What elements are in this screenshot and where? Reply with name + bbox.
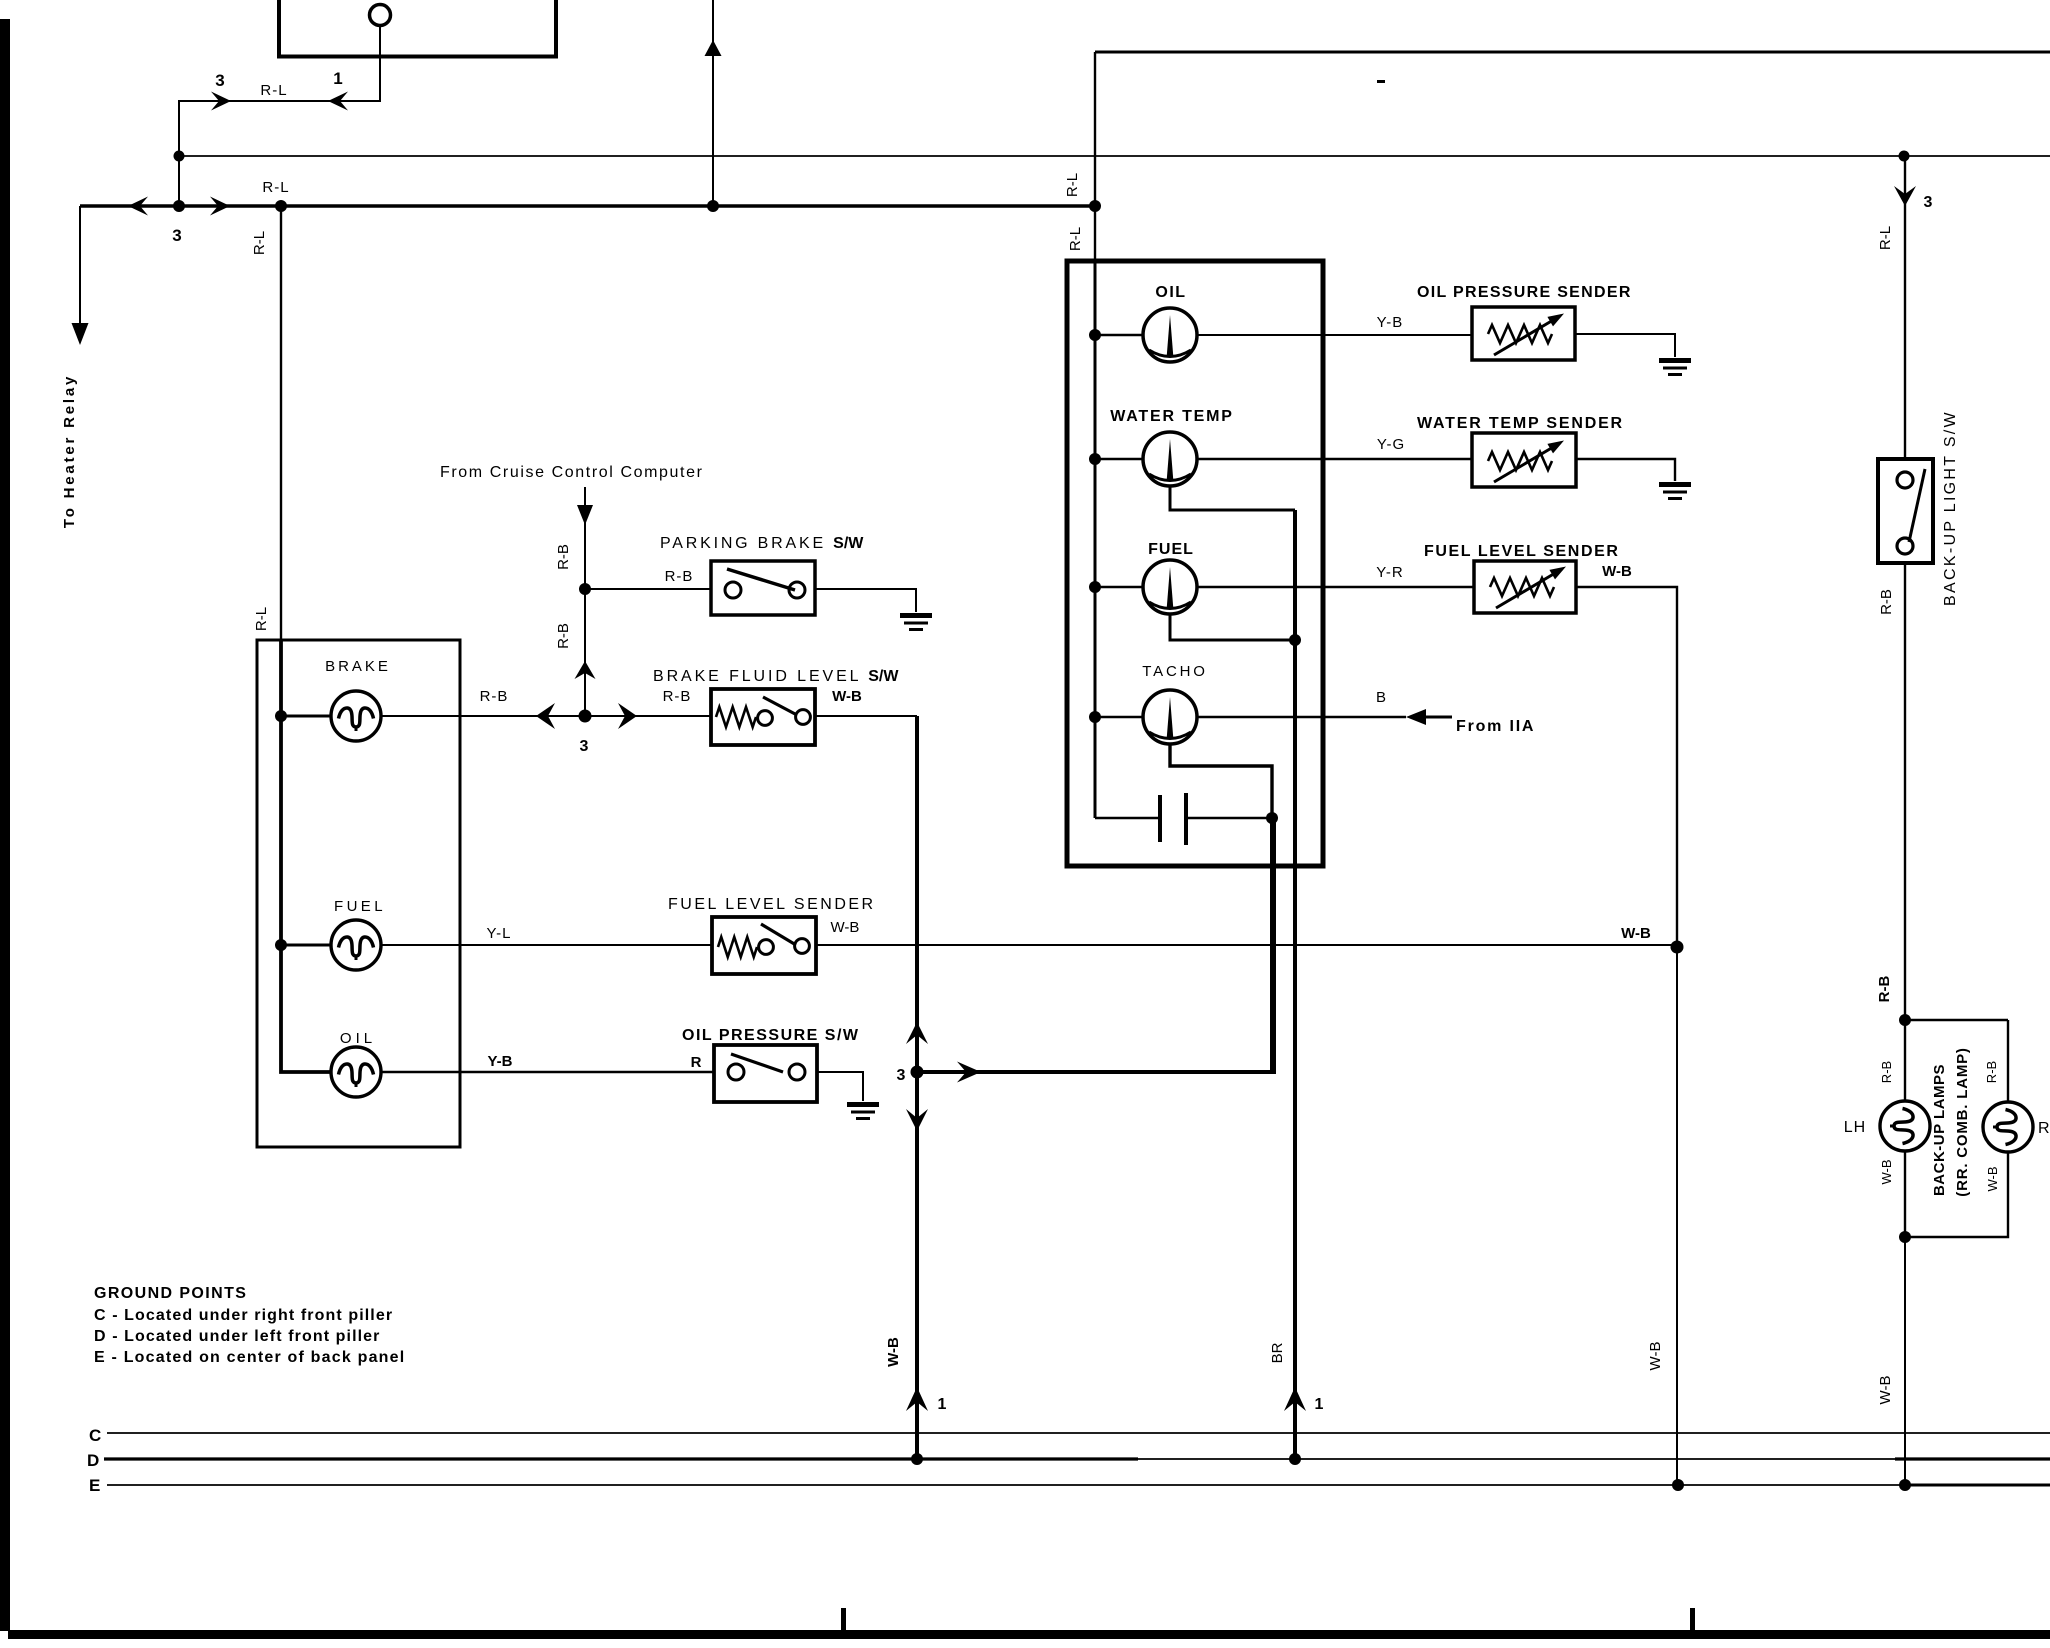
fuel level sender (variable resistor) [1474, 561, 1576, 613]
WATER TEMP gauge [1143, 432, 1197, 486]
capacitor left wire [1095, 817, 1158, 820]
connector arrow right [618, 703, 637, 729]
wire parking brake to ground [815, 589, 916, 612]
svg-text:W-B: W-B [885, 1337, 902, 1367]
svg-text:FUEL: FUEL [1148, 541, 1194, 558]
back-up lamp parallel loop bottom wire [1905, 1153, 2008, 1237]
svg-text:B: B [1376, 689, 1386, 706]
junction dot back-up lamps [1899, 1014, 1911, 1026]
svg-text:WATER TEMP SENDER: WATER TEMP SENDER [1417, 415, 1624, 432]
FUEL gauge [1143, 560, 1197, 614]
svg-text:R-B: R-B [1879, 1061, 1894, 1083]
meter bus R-L [1094, 261, 1097, 818]
svg-text:TACHO: TACHO [1142, 663, 1207, 680]
arrow to heater relay [72, 323, 89, 345]
fuel level sender switch [712, 917, 816, 974]
wire bus to brake lamp [281, 715, 331, 718]
svg-text:3: 3 [1924, 194, 1933, 211]
connector chevron 1 up [1284, 1387, 1306, 1411]
connector arrow 3 (male) [211, 92, 231, 111]
svg-text:FUEL: FUEL [334, 898, 386, 915]
wire Y-G water temp gauge to sender [1197, 458, 1472, 460]
svg-text:OIL PRESSURE S/W: OIL PRESSURE S/W [682, 1027, 860, 1044]
junction dot capacitor / tacho return [1266, 812, 1278, 824]
svg-text:To Heater Relay: To Heater Relay [61, 374, 78, 528]
connector chevron 1 up [906, 1387, 928, 1411]
back-up light switch [1878, 459, 1933, 563]
svg-text:W-B: W-B [1985, 1166, 2000, 1191]
wire R-L main feed (to combination meter) [80, 204, 1095, 208]
wire oil pressure sender to ground [1575, 334, 1675, 357]
wire R-L from ignition terminal [179, 26, 380, 206]
svg-text:C - Located under right front: C - Located under right front piller [94, 1307, 393, 1324]
water temp sender (variable resistor) [1472, 433, 1576, 487]
svg-text:BACK-UP LIGHT S/W: BACK-UP LIGHT S/W [1942, 410, 1959, 606]
svg-text:E - Located on center of back: E - Located on center of back panel [94, 1349, 405, 1366]
junction dot R-L / thin bus [174, 151, 185, 162]
wire R-L down into combination meter [1094, 52, 1096, 261]
wire Y-R fuel gauge to sender [1197, 586, 1474, 588]
svg-text:R-B: R-B [555, 623, 572, 649]
svg-text:D - Located under left front p: D - Located under left front piller [94, 1328, 381, 1345]
page border bottom bar [8, 1630, 2050, 1639]
svg-text:Y-B: Y-B [1377, 314, 1404, 331]
svg-text:1: 1 [333, 69, 342, 88]
ground line D right thick segment [1895, 1457, 2050, 1460]
OIL gauge [1143, 308, 1197, 362]
wire branch up to charging circuit [712, 0, 714, 206]
svg-text:3: 3 [580, 738, 589, 755]
arrow from IIA [1406, 709, 1426, 725]
svg-text:RH: RH [2038, 1120, 2050, 1137]
svg-text:OIL PRESSURE SENDER: OIL PRESSURE SENDER [1417, 284, 1632, 301]
svg-text:LH: LH [1844, 1119, 1866, 1136]
wire W-B from LH lamp [1904, 1151, 1906, 1237]
ignition switch box (cut off at top edge) [277, 0, 558, 57]
junction dot on ground line E [1672, 1479, 1684, 1491]
OIL warning lamp [331, 1047, 381, 1097]
wire R-B from cruise control computer [584, 487, 586, 716]
capacitor (noise suppressor) in meter [1160, 793, 1186, 845]
junction dot [707, 200, 719, 212]
wire W-B to ground point E [1904, 1237, 1906, 1485]
ground (oil pressure S/W) [847, 1102, 879, 1107]
wire oil pressure switch to ground [817, 1072, 863, 1101]
wire B tacho to IIA [1197, 716, 1406, 718]
svg-text:BRAKE FLUID LEVEL S/W: BRAKE FLUID LEVEL S/W [653, 668, 899, 685]
junction dot tacho [1089, 711, 1101, 723]
svg-text:BR: BR [1269, 1342, 1286, 1363]
connector chevron down [906, 1109, 928, 1131]
ground (water temp sender) [1659, 482, 1691, 487]
svg-text:D: D [87, 1451, 99, 1470]
wire Y-B oil gauge to sender [1197, 334, 1472, 336]
ground line E [107, 1484, 1906, 1486]
capacitor right wire [1188, 817, 1272, 820]
parking brake switch [711, 561, 815, 615]
svg-text:R: R [691, 1054, 702, 1071]
svg-text:FUEL LEVEL SENDER: FUEL LEVEL SENDER [668, 896, 876, 913]
ground line D thin segment [1138, 1458, 1895, 1460]
junction dot R-L main feed [173, 200, 185, 212]
junction dot on R-L bus at back-up light branch [1899, 151, 1910, 162]
ground line E right thick segment [1906, 1484, 2050, 1487]
wire R-B to LH lamp [1904, 1020, 1906, 1101]
fuel gauge bottom wire [1170, 614, 1292, 640]
svg-text:1: 1 [938, 1396, 947, 1413]
wire bus to tacho [1095, 716, 1143, 719]
ground (oil pressure sender) [1659, 358, 1691, 363]
connector arrow 1 (female) [328, 92, 348, 111]
svg-text:OIL: OIL [1155, 284, 1186, 301]
svg-text:R-B: R-B [555, 544, 572, 570]
oil pressure switch [714, 1045, 817, 1102]
svg-text:W-B: W-B [831, 919, 860, 936]
feed wire from ignition switch (top right) [1095, 51, 2050, 54]
svg-text:PARKING BRAKE S/W: PARKING BRAKE S/W [660, 535, 864, 552]
junction dot W-B / oil pressure net [911, 1066, 924, 1079]
wire R-L down to back-up light switch [1904, 156, 1906, 459]
wire thick to combination meter (tacho/capacitor return) [917, 818, 1274, 1072]
svg-text:R-L: R-L [262, 179, 289, 196]
bottom border tick 2 [1690, 1608, 1695, 1630]
wire W-B (to ground point D) [915, 716, 919, 1459]
svg-text:R-L: R-L [1067, 227, 1084, 251]
ground line D thick segment [104, 1457, 1138, 1460]
connector arrow right 3 [210, 197, 230, 216]
arrow up [705, 40, 722, 56]
wire W-B fuel sender to ground point E [817, 944, 1677, 946]
TACHO gauge [1143, 690, 1197, 744]
svg-text:C: C [89, 1426, 101, 1445]
wire BR (meter to ground point D) [1293, 510, 1297, 1459]
svg-text:E: E [89, 1476, 100, 1495]
svg-text:W-B: W-B [1879, 1159, 1894, 1184]
svg-text:R-B: R-B [480, 688, 509, 705]
water temp gauge bottom wire [1170, 486, 1295, 510]
svg-text:Y-L: Y-L [487, 925, 512, 942]
svg-text:(RR. COMB. LAMP): (RR. COMB. LAMP) [1954, 1047, 1971, 1196]
svg-text:BACK-UP LAMPS: BACK-UP LAMPS [1931, 1064, 1948, 1196]
connector arrow right [957, 1062, 981, 1083]
junction dot fuel gauge [1089, 581, 1101, 593]
combination meter box [1067, 261, 1323, 866]
svg-text:R-L: R-L [260, 82, 287, 99]
svg-text:R-B: R-B [665, 568, 694, 585]
page border left bar [0, 19, 10, 1631]
svg-text:FUEL LEVEL SENDER: FUEL LEVEL SENDER [1424, 543, 1620, 560]
wire Y-L fuel lamp to sender [381, 944, 713, 946]
junction dot on ground line D [911, 1453, 923, 1465]
connector arrow left (to heater relay) [128, 197, 148, 216]
connector chevron up [906, 1022, 928, 1044]
junction dot water temp gauge [1089, 453, 1101, 465]
junction dot oil gauge [1089, 329, 1101, 341]
connector arrow left [536, 703, 555, 729]
wire R-L bus (to back-up light S/W) [179, 155, 2050, 157]
junction dot W-B net [1671, 941, 1684, 954]
svg-text:3: 3 [897, 1067, 906, 1084]
svg-text:W-B: W-B [832, 688, 862, 705]
arrow down from cruise control [577, 505, 593, 525]
back-up lamp RH [1983, 1102, 2033, 1152]
wire R-B brake lamp to switches [381, 715, 711, 717]
junction dot [1899, 1231, 1911, 1243]
wire W-B brake fluid level switch output [815, 715, 917, 717]
svg-text:R-B: R-B [1984, 1061, 1999, 1083]
terminal circle on ignition box [370, 5, 391, 26]
junction dot on ground line D [1289, 1453, 1301, 1465]
junction dot fuel gauge return / BR net [1289, 634, 1301, 646]
svg-text:R-L: R-L [1064, 173, 1081, 197]
wire to heater relay [79, 206, 81, 340]
wire Y-B oil lamp to switch [381, 1071, 715, 1073]
wire water temp sender to ground [1576, 459, 1675, 481]
svg-text:W-B: W-B [1877, 1376, 1894, 1405]
svg-text:R-B: R-B [663, 688, 692, 705]
connector chevron 3 down [1894, 186, 1916, 206]
back-up lamp LH [1880, 1101, 1930, 1151]
wire R-B back-up light switch to lamps [1904, 563, 1906, 1020]
svg-text:From IIA: From IIA [1456, 718, 1535, 735]
svg-text:OIL: OIL [340, 1030, 376, 1047]
ground (parking brake S/W) [900, 613, 932, 618]
oil pressure sender (variable resistor) [1472, 307, 1575, 360]
FUEL warning lamp [331, 920, 381, 970]
svg-text:W-B: W-B [1602, 563, 1632, 580]
wire bus to water temp gauge [1095, 458, 1143, 461]
svg-text:From Cruise Control Computer: From Cruise Control Computer [440, 464, 704, 481]
svg-text:W-B: W-B [1647, 1342, 1664, 1371]
warning lamp bus R-L [281, 640, 331, 1072]
svg-text:R-L: R-L [251, 231, 268, 255]
svg-text:R-B: R-B [1876, 976, 1893, 1003]
junction dot brake lamp [275, 710, 287, 722]
wire W-B return inside meter [1270, 818, 1274, 1072]
ground line C [107, 1432, 2050, 1434]
wire W-B down to ground point E [1676, 947, 1678, 1485]
junction dot R-L at combination meter feed [1089, 200, 1101, 212]
BRAKE warning lamp [331, 691, 381, 741]
tacho bottom wire [1170, 744, 1272, 818]
svg-text:WATER TEMP: WATER TEMP [1110, 408, 1233, 425]
svg-text:1: 1 [1315, 1396, 1324, 1413]
svg-text:Y-B: Y-B [487, 1053, 512, 1070]
wire bus to fuel lamp [281, 944, 331, 947]
junction dot parking brake branch [579, 583, 591, 595]
svg-text:R-L: R-L [253, 607, 270, 631]
junction dot fuel lamp [275, 939, 287, 951]
back-up lamp parallel loop top wire [1905, 1019, 2008, 1021]
brake fluid level switch [711, 689, 815, 745]
svg-text:GROUND POINTS: GROUND POINTS [94, 1285, 247, 1302]
svg-text:Y-R: Y-R [1376, 564, 1403, 581]
wire bus to oil gauge [1095, 334, 1143, 337]
junction dot R-L branch to warning lamps [275, 200, 287, 212]
svg-text:R-L: R-L [1877, 226, 1894, 250]
wire R-L down to warning lamp cluster [280, 206, 282, 640]
wire R-B to parking brake switch [585, 588, 711, 590]
junction dot on ground line E [1899, 1479, 1911, 1491]
warning lamp cluster box (combination meter) [257, 640, 460, 1147]
wire W-B fuel sender down to ground point E [1576, 587, 1677, 948]
svg-text:W-B: W-B [1621, 925, 1651, 942]
bottom border tick 1 [841, 1608, 846, 1630]
svg-text:Y-G: Y-G [1377, 436, 1405, 453]
svg-text:R-B: R-B [1878, 589, 1895, 615]
wire bus to fuel gauge [1095, 586, 1143, 589]
svg-text:3: 3 [172, 226, 181, 245]
svg-text:3: 3 [215, 71, 224, 90]
junction dot [579, 710, 592, 723]
stray printed dash [1377, 80, 1385, 83]
svg-text:BRAKE: BRAKE [325, 658, 391, 675]
connector chevron up [575, 661, 596, 679]
